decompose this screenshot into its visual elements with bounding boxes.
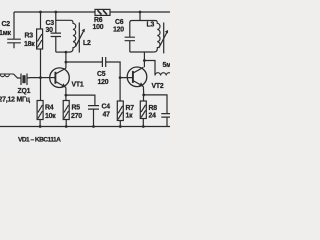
capacitor C3 xyxy=(51,20,61,52)
label R6 xyxy=(94,17,103,24)
svg-text:24: 24 xyxy=(149,113,157,120)
wire R5 bottom lead xyxy=(65,120,67,127)
node dot R5 ground xyxy=(65,125,68,128)
wire VT2 emitter lead xyxy=(142,87,144,95)
value 1к xyxy=(126,113,134,120)
caption VD1 type xyxy=(18,137,61,144)
value 5м xyxy=(163,62,172,69)
value 270 xyxy=(71,113,82,120)
wire emitter to C7 xyxy=(144,95,167,114)
wire emitter to C4 xyxy=(66,95,95,106)
svg-text:C6: C6 xyxy=(115,19,124,26)
wire top supply rail xyxy=(14,11,170,13)
value 30 xyxy=(46,27,54,34)
label L2 xyxy=(83,40,91,47)
value 10к xyxy=(45,113,56,120)
wire R3 top lead xyxy=(40,12,42,29)
svg-text:10к: 10к xyxy=(45,113,56,120)
label R8 xyxy=(149,105,158,112)
resistor R7 xyxy=(117,101,123,121)
svg-text:R4: R4 xyxy=(45,105,54,112)
resistor R4 xyxy=(37,101,43,120)
svg-text:L2: L2 xyxy=(83,40,91,47)
wire collector to C5 xyxy=(66,61,103,63)
value 120 xyxy=(113,27,124,34)
wire collector node to VT2 xyxy=(143,61,145,68)
inductor L3 winding xyxy=(154,23,160,52)
svg-text:C4: C4 xyxy=(102,104,111,111)
svg-text:R3: R3 xyxy=(25,33,34,40)
svg-text:VD1 – KBC111A: VD1 – KBC111A xyxy=(18,137,61,144)
label C4 xyxy=(102,104,111,111)
value 27,12 МГц xyxy=(0,96,31,103)
label R7 xyxy=(126,105,135,112)
svg-text:100: 100 xyxy=(93,24,104,31)
svg-text:VT1: VT1 xyxy=(72,82,84,89)
wire tank2 stub and top bar xyxy=(130,12,158,37)
svg-text:47: 47 xyxy=(103,112,111,119)
wire tank1 stub and top bar xyxy=(56,12,73,23)
node dot VT2 emitter xyxy=(142,94,145,97)
value 120 xyxy=(98,79,109,86)
wire output choke feed xyxy=(144,61,155,76)
node dot R4 ground xyxy=(39,125,42,128)
svg-text:27,12 МГц: 27,12 МГц xyxy=(0,96,31,103)
resistor R6 xyxy=(95,9,110,15)
wire R8 bottom lead xyxy=(142,119,144,127)
svg-text:270: 270 xyxy=(71,113,82,120)
wire tank2 bottom bar xyxy=(130,51,154,53)
wire R7 top lead xyxy=(119,78,121,101)
wire R5 top lead xyxy=(65,95,67,100)
node dot VT1 emitter xyxy=(65,94,68,97)
capacitor C7 xyxy=(161,114,170,127)
svg-text:30: 30 xyxy=(46,27,54,34)
value 100 xyxy=(93,24,104,31)
node dot R7 ground xyxy=(119,125,122,128)
svg-text:1к: 1к xyxy=(126,113,134,120)
label VT2 xyxy=(152,83,164,90)
crystal ZQ1 xyxy=(21,74,27,86)
wire R7 bottom lead xyxy=(119,121,121,127)
wire L1 to crystal xyxy=(14,74,22,78)
svg-text:R5: R5 xyxy=(72,105,81,112)
wire bottom ground rail xyxy=(0,126,170,128)
label R4 xyxy=(45,105,54,112)
label C6 xyxy=(115,19,124,26)
label C5 xyxy=(97,71,106,78)
label R3 xyxy=(25,33,34,40)
value 47 xyxy=(103,112,111,119)
wire VT1 emitter lead xyxy=(65,87,67,95)
node dot R8 ground xyxy=(142,125,145,128)
svg-text:5м: 5м xyxy=(163,62,171,69)
svg-text:120: 120 xyxy=(98,79,109,86)
label L3 xyxy=(147,22,155,29)
label C3 xyxy=(46,20,55,27)
resistor R5 xyxy=(63,101,69,120)
inductor L2 winding xyxy=(70,23,76,52)
value 18к xyxy=(24,41,35,48)
svg-text:18к: 18к xyxy=(24,41,35,48)
svg-text:C2: C2 xyxy=(2,21,11,28)
resistor R3 xyxy=(37,29,43,49)
node dot C4 ground xyxy=(92,125,95,128)
node dot VT2 base xyxy=(119,76,122,79)
node dot tank1 bottom xyxy=(65,51,68,54)
svg-text:R6: R6 xyxy=(94,17,103,24)
wire R3 bottom lead to base node xyxy=(40,49,42,78)
capacitor C4 xyxy=(88,106,99,127)
label ZQ1 xyxy=(18,88,31,95)
transistor VT1 xyxy=(50,68,70,88)
svg-text:R7: R7 xyxy=(126,105,135,112)
wire R4 bottom lead xyxy=(39,120,41,127)
svg-text:C5: C5 xyxy=(97,71,106,78)
node dot collector branch xyxy=(65,61,68,64)
node dot top of R3 xyxy=(39,11,42,14)
node dot tank2 top xyxy=(139,11,142,14)
label R5 xyxy=(72,105,81,112)
inductor L2 core line xyxy=(78,23,80,53)
inductor L2 tuning arrow xyxy=(76,29,85,47)
wire C5 to VT2 base xyxy=(106,62,133,78)
capacitor C5 xyxy=(102,57,105,67)
inductor output choke xyxy=(155,73,172,76)
transistor VT2 xyxy=(127,67,147,87)
node dot VT1 base xyxy=(39,76,42,79)
node dot VT2 collector xyxy=(143,59,146,62)
resistor R8 xyxy=(140,101,146,119)
wire R4 top lead xyxy=(40,78,42,101)
node dot tank1 top xyxy=(54,11,57,14)
wire VT1 collector riser xyxy=(65,52,67,68)
value 24 xyxy=(149,113,157,120)
wire tank1 bottom bar xyxy=(56,51,70,53)
label VT1 xyxy=(72,82,84,89)
value 1мк xyxy=(0,30,12,37)
svg-text:ZQ1: ZQ1 xyxy=(18,88,31,95)
label C2 xyxy=(2,21,11,28)
wire tank2 to collector node xyxy=(143,52,145,61)
svg-text:L3: L3 xyxy=(147,22,155,29)
inductor L1 input coil xyxy=(0,74,14,77)
svg-text:C3: C3 xyxy=(46,20,55,27)
inductor L3 tuning arrow xyxy=(159,30,168,48)
wire R8 top lead xyxy=(143,95,145,101)
wire base node to VT1 xyxy=(41,77,56,79)
svg-text:1мк: 1мк xyxy=(0,30,12,37)
wire crystal to base node xyxy=(27,77,41,79)
svg-text:120: 120 xyxy=(113,27,124,34)
svg-text:VT2: VT2 xyxy=(152,83,164,90)
svg-text:R8: R8 xyxy=(149,105,158,112)
capacitor C6 xyxy=(125,37,135,52)
inductor L3 core line xyxy=(163,23,165,54)
capacitor C2 xyxy=(7,12,21,48)
